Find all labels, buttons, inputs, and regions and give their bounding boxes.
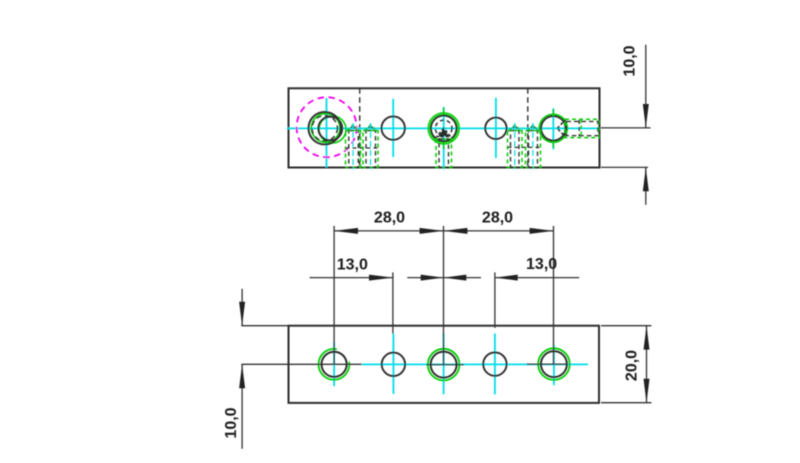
extension line hole B1 vertical bbox=[333, 226, 335, 364]
right 20,0 dim line bbox=[646, 326, 648, 403]
drill cluster2 black rect under H3 bbox=[439, 139, 449, 168]
drill cluster1 feature R black rect bbox=[366, 131, 376, 168]
hole H5 green centreline tick top bbox=[552, 109, 554, 116]
hole H1 inner bore circle offset bbox=[318, 117, 342, 141]
bottom hole B3 green circle bbox=[428, 349, 460, 381]
dim 13,0 left arrow at center (pointing left) bbox=[444, 275, 467, 281]
drill cluster1 feature L centerline bbox=[352, 123, 354, 169]
hole H5 green circle bbox=[539, 114, 567, 142]
hole H3 hidden thread circle bbox=[435, 120, 452, 137]
top right 10,0 upper arrow (down) bbox=[643, 104, 649, 128]
hole H1 thread dashed circle bbox=[312, 116, 337, 141]
hole H3 green centreline tick bottom bbox=[443, 143, 445, 150]
extension line hole B5 vertical bbox=[553, 226, 555, 364]
hole H1 vertical centerline bbox=[326, 98, 328, 168]
dim 13,0 right arrow at B4 bbox=[495, 275, 518, 281]
side drill black rect from H5 to right edge bbox=[567, 121, 599, 135]
extension line hole B2 vertical bbox=[392, 272, 394, 333]
left 10,0 lower arrow (up) bbox=[239, 364, 245, 388]
drill cluster1 feature R tip bbox=[366, 126, 376, 131]
hole H3 green circle inner bbox=[430, 114, 458, 142]
hidden edge dashed line left (top view) bbox=[359, 88, 361, 167]
drill cluster3 feature L green rect bbox=[508, 131, 523, 168]
svg-text:10,0: 10,0 bbox=[223, 407, 240, 438]
arrow right of dim 28,0 left bbox=[420, 228, 444, 234]
drill cluster3 feature L tip bbox=[510, 126, 520, 131]
drill cluster3 feature L centerline bbox=[514, 123, 516, 169]
left 10,0 dim line lower tail bbox=[241, 364, 243, 449]
centre tick hole B3 bbox=[426, 364, 464, 366]
extension line center vertical bbox=[443, 226, 445, 365]
hole H3 drill tip triangle bbox=[437, 128, 451, 136]
magenta construction circle around H1 bbox=[297, 97, 357, 157]
dim 13,0 right tail bbox=[495, 277, 579, 279]
centre tick hole B5 bbox=[527, 363, 568, 365]
svg-text:20,0: 20,0 bbox=[624, 350, 641, 381]
bottom hole B5 green circle bbox=[538, 348, 570, 380]
hole H1 counterbore outer circle bbox=[309, 112, 341, 144]
drill cluster1 shoulder dash bbox=[346, 147, 379, 149]
drill cluster3 feature R centerline bbox=[532, 123, 534, 169]
top right 10,0 dim upper tail bbox=[645, 45, 647, 128]
hole H2 circle bbox=[382, 116, 405, 139]
svg-text:13,0: 13,0 bbox=[526, 256, 557, 273]
hole H1 green fitting circle b bbox=[319, 116, 346, 143]
bottom hole B5 circle bbox=[541, 351, 567, 377]
dim 13,0 right arrow at center (pointing right) bbox=[421, 275, 444, 281]
hole H5 side drill tip triangle bbox=[557, 120, 565, 137]
hole H1 green fitting circle a bbox=[311, 114, 340, 143]
side drill divider dashed bbox=[578, 120, 580, 137]
drill cluster1 feature R centerline bbox=[370, 123, 372, 169]
drill cluster1 feature R green rect bbox=[363, 131, 378, 168]
hole H2 vertical centerline bbox=[392, 99, 394, 157]
arrow left of dim 28,0 left bbox=[334, 228, 358, 234]
right 20,0 lower arrow (down) bbox=[644, 379, 650, 403]
bottom hole B3 vertical centerline bbox=[443, 334, 445, 395]
top right 10,0 ext line bottom edge bbox=[601, 166, 648, 168]
side drill green rect from H5 to right edge bbox=[565, 119, 599, 137]
hole H4 vertical centerline bbox=[495, 98, 497, 158]
left 10,0 dim line upper tail bbox=[241, 289, 243, 326]
left 10,0 ext line top edge bbox=[241, 325, 288, 327]
top view main horizontal centerline bbox=[287, 127, 599, 129]
hole H5 vertical centerline bbox=[552, 108, 554, 149]
drill tip green overlay bbox=[365, 125, 377, 131]
drill cluster1 feature L green rect bbox=[346, 131, 361, 168]
drill cluster1 feature L tip bbox=[348, 126, 358, 131]
hole H3 circle bbox=[431, 116, 457, 142]
svg-text:13,0: 13,0 bbox=[337, 256, 368, 273]
drill cluster3 feature L black rect bbox=[511, 131, 520, 168]
bottom hole B4 vertical centerline bbox=[494, 334, 496, 395]
dim 13,0 left arrow at B2 bbox=[369, 275, 393, 281]
drill tip green overlay bbox=[347, 125, 359, 131]
side drill green divider dashed bbox=[580, 120, 582, 138]
bottom view horizontal centerline bbox=[362, 363, 588, 365]
bottom hole B2 vertical centerline bbox=[392, 334, 394, 394]
hole H5 circle bbox=[541, 116, 566, 141]
right 20,0 ext line top bbox=[601, 325, 651, 327]
top view part outline bbox=[289, 88, 600, 167]
drill cluster3 feature R black rect bbox=[529, 131, 538, 168]
dimension line 13,0 left tail bbox=[310, 277, 393, 279]
bottom view part outline bbox=[289, 326, 600, 403]
drill cluster3 feature R tip bbox=[528, 126, 538, 131]
top right 10,0 ext line centre bbox=[601, 127, 651, 129]
bottom hole B1 circle bbox=[322, 352, 347, 377]
right 20,0 upper arrow (up) bbox=[644, 326, 650, 350]
left 10,0 ext line hole centre bbox=[241, 363, 361, 365]
hole H3 green centreline tick top bbox=[443, 108, 445, 115]
left 10,0 upper arrow (down) bbox=[239, 302, 245, 326]
svg-text:10,0: 10,0 bbox=[622, 45, 639, 76]
bottom hole B1 green circle bbox=[319, 349, 350, 380]
hole H3 vertical centerline bbox=[443, 107, 445, 169]
top right 10,0 lower tail bbox=[645, 167, 647, 204]
drill tip green overlay bbox=[509, 125, 521, 131]
dimension line 28,0 right bbox=[444, 230, 554, 232]
arrow right of dim 28,0 right bbox=[530, 228, 554, 234]
bottom hole B1 vertical centerline bbox=[333, 342, 335, 386]
drill cluster1 feature L black rect bbox=[349, 131, 359, 168]
drill tip green overlay bbox=[527, 125, 539, 131]
bottom hole B4 circle bbox=[483, 352, 506, 375]
hole H4 circle bbox=[485, 118, 506, 139]
hole H5 green centreline tick bottom bbox=[552, 141, 554, 148]
bottom hole B2 circle bbox=[382, 353, 405, 376]
drill cluster3 feature R green rect bbox=[526, 131, 541, 168]
drill cluster3 shoulder dash bbox=[508, 146, 541, 148]
dimension line 28,0 left bbox=[334, 230, 443, 232]
arrow left of dim 28,0 right bbox=[444, 228, 468, 234]
extension line hole B4 vertical bbox=[494, 272, 496, 328]
drill cluster2 green rect under H3 bbox=[436, 139, 452, 168]
top right 10,0 lower arrow (up) bbox=[643, 167, 649, 191]
bottom hole B5 vertical centerline bbox=[553, 345, 555, 386]
hole H3 drill tip fill bbox=[439, 129, 449, 136]
svg-text:28,0: 28,0 bbox=[374, 210, 405, 227]
right 20,0 ext line bottom bbox=[601, 402, 651, 404]
bottom hole B3 circle bbox=[431, 352, 457, 378]
svg-text:28,0: 28,0 bbox=[482, 210, 513, 227]
dim 13,0 left middle segment bbox=[407, 277, 481, 279]
hole H3 green circle outer bbox=[428, 113, 459, 144]
hidden edge dashed line right (top view) bbox=[527, 88, 529, 167]
